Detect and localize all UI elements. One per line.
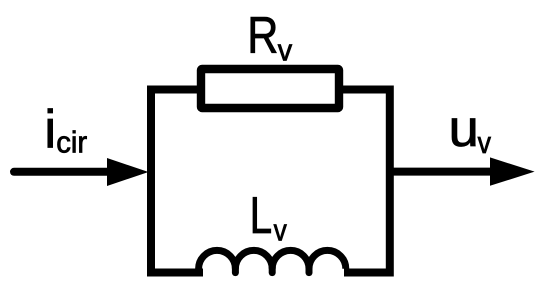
input arrowhead [107, 158, 149, 186]
resistor R_v (box) [201, 69, 339, 108]
inductor cusp stem 3 [306, 266, 313, 273]
svg-text:cir: cir [56, 126, 87, 160]
svg-text:v: v [278, 33, 292, 67]
svg-text:v: v [274, 213, 288, 247]
inductor L_v (4 arcs) [199, 250, 346, 268]
svg-text:R: R [247, 7, 278, 65]
wire: input current arrow shaft [14, 168, 120, 176]
inductor cusp stem 1 [232, 266, 239, 273]
output arrowhead [490, 157, 535, 185]
svg-text:i: i [44, 100, 56, 160]
inductor cusp stem 2 [269, 266, 276, 273]
wire: output voltage arrow shaft [390, 168, 501, 176]
svg-text:v: v [478, 126, 492, 160]
svg-text:L: L [250, 186, 273, 244]
svg-text:u: u [449, 100, 479, 158]
wire loop (parallel connection rectangle) [151, 90, 390, 273]
